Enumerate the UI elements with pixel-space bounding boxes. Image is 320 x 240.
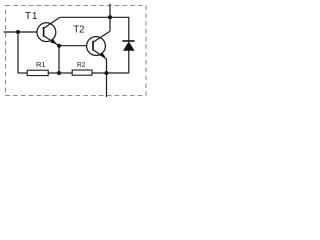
wire: vertical from left node down to R1 row [17,32,19,73]
node dot between R1 and R2 [57,71,61,75]
wire: bottom output terminal through border [106,73,108,97]
node dot T1 emitter / T2 base [57,44,61,48]
node dot on top rail [108,15,112,19]
resistor R1 [27,70,48,75]
transistor T1 [37,17,60,45]
wire: diode cathode up to top wire corner [128,17,130,40]
wire: vertical up to diode anode [128,50,130,73]
svg-text:T1: T1 [25,11,38,22]
wire: bottom node to lower-right corner [107,72,129,74]
wire: top rail [60,16,129,18]
svg-text:R1: R1 [36,60,46,69]
svg-text:T2: T2 [73,24,84,36]
wire: middle node to R2 [59,72,72,74]
node dot at left branch [16,30,20,34]
transistor T2 [87,31,110,59]
diode D1 (cathode up) [123,42,134,51]
wire: T2 emitter down to bottom node [106,59,108,74]
wire: vertical from emitter node down to R1/R2 node [58,46,60,73]
svg-text:R2: R2 [77,60,85,69]
wire: emitter node to T2 base [59,45,87,47]
wire: horizontal into R1 [18,72,27,74]
resistor R2 [72,70,92,75]
wire: top node down to T2 collector bend [109,17,111,31]
dashed enclosure border [6,6,147,96]
wire: top terminal through border [109,4,111,17]
wire: R2 to right bottom node [92,72,107,74]
wire: left input terminal to T1 base [4,31,38,33]
node dot bottom right [105,71,109,75]
wire: R1 to middle node [48,72,59,74]
